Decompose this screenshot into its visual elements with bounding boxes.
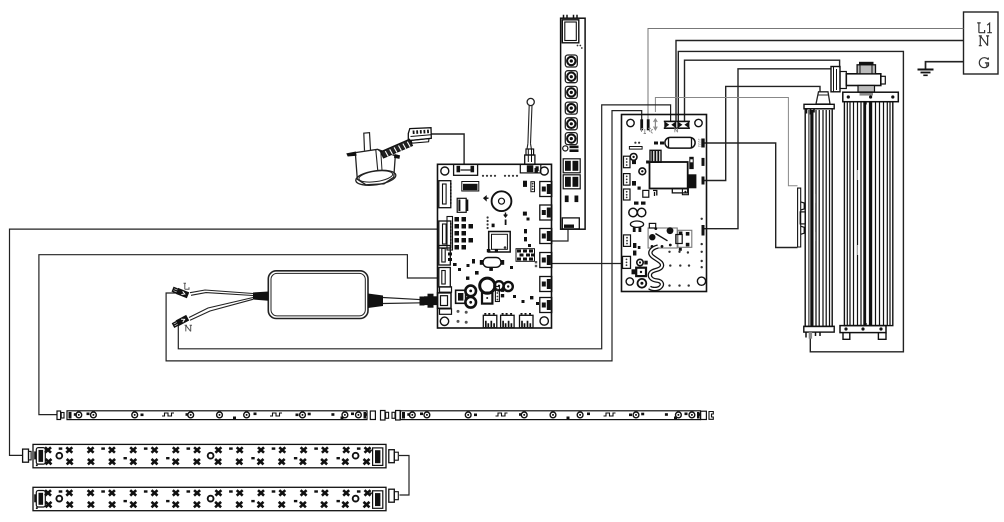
- bar1 right plug: [389, 450, 399, 463]
- cable connector: [408, 128, 431, 144]
- LED indicator: [563, 146, 579, 152]
- small parts right of buzzer: [523, 168, 538, 221]
- screw T1: [630, 154, 637, 161]
- cap C1 C2: [465, 286, 476, 297]
- cable left: [253, 292, 268, 301]
- dark square D1: [482, 293, 492, 304]
- right pin bar 1: [702, 158, 705, 166]
- pin TC: [654, 119, 658, 130]
- label L1: [642, 129, 647, 134]
- connector right 6: [540, 298, 552, 313]
- connector bottom 3: [520, 314, 534, 328]
- power supply PS1: [172, 271, 424, 332]
- wire PSU N to power board: [178, 105, 670, 349]
- connector left L4: [624, 235, 631, 247]
- right pin bar 3: [702, 225, 705, 236]
- pin header right: [531, 182, 535, 192]
- connector J1 top: [454, 164, 478, 175]
- connector right 4: [540, 253, 552, 268]
- screw T3: [637, 259, 648, 265]
- strip1 right plug: [370, 411, 388, 421]
- IC U5: [462, 182, 479, 192]
- wire LED bar link: [399, 456, 409, 496]
- connector left C: [439, 246, 451, 266]
- inductor wave: [650, 247, 663, 290]
- pad dots field: [634, 142, 703, 287]
- small parts left column: [632, 161, 649, 256]
- button board U2: [561, 15, 586, 229]
- button S5: [565, 118, 577, 130]
- button S4: [565, 102, 577, 114]
- fan FAN1: [831, 62, 898, 340]
- wire G: [926, 62, 964, 69]
- bottom pin: [809, 332, 812, 339]
- wire PSU L to power board: [166, 111, 642, 361]
- connector left L1: [624, 156, 631, 168]
- connector bottom 2: [501, 314, 514, 328]
- connector right 3: [540, 229, 552, 244]
- button S2: [565, 71, 577, 83]
- strip2 right plug: [701, 411, 714, 419]
- strip2 left plug: [392, 411, 400, 421]
- IC U6: [457, 198, 468, 212]
- resistor grid: [455, 217, 474, 250]
- transistor Q10: [676, 230, 692, 251]
- gray dots bottom-left: [457, 310, 468, 324]
- transistor Q11: [632, 268, 647, 276]
- relay RY1: [648, 223, 677, 248]
- bottom bracket: [840, 326, 886, 340]
- spade N: [172, 315, 189, 328]
- spade L: [172, 286, 189, 298]
- right pin bar 2: [702, 177, 705, 185]
- connector bottom: [562, 218, 579, 229]
- strip plug left: [57, 411, 64, 420]
- connector bottom 1: [483, 314, 497, 328]
- heater H1: [798, 92, 835, 339]
- wire main PCB to LED bar 1: [10, 229, 438, 455]
- dot column: [487, 216, 489, 229]
- cap C3 big: [480, 278, 495, 293]
- LED strip 1: [67, 411, 368, 420]
- body: [355, 149, 395, 185]
- connector left D: [439, 268, 451, 288]
- MCU U7: [489, 232, 511, 253]
- wire button board: [552, 230, 569, 242]
- cap square C6: [456, 290, 466, 303]
- thermostat: [816, 92, 830, 104]
- left tab: [347, 152, 357, 156]
- caps pair: [629, 208, 646, 216]
- wire L1: [648, 29, 964, 121]
- polarity arrows: [484, 197, 489, 201]
- fuse F1: [665, 137, 695, 148]
- wire N: [676, 41, 964, 123]
- bar1 left plug: [23, 449, 32, 462]
- DC plug: [420, 297, 425, 306]
- bottom cup: [355, 168, 397, 187]
- connector left B: [439, 221, 451, 248]
- wire main PCB to LED strip: [39, 255, 438, 415]
- terminal block TB1: [964, 12, 999, 74]
- pin header bottom: [495, 287, 504, 302]
- ground: [918, 70, 934, 76]
- IC U9: [563, 175, 580, 189]
- motor M1: [347, 128, 431, 188]
- pads: [565, 196, 569, 203]
- main PCB U1: [424, 164, 552, 328]
- cap C10: [689, 157, 693, 169]
- fan motor: [831, 62, 885, 96]
- DC jack J2: [424, 287, 452, 315]
- connector left A: [439, 181, 451, 208]
- pin L1b: [647, 119, 650, 130]
- ribbon cable: [381, 139, 413, 158]
- wire motor connector: [431, 134, 464, 165]
- IC small: [643, 190, 657, 197]
- label N: [185, 325, 192, 331]
- label L: [184, 283, 190, 289]
- wire heater TC: [655, 98, 797, 186]
- cable right: [368, 294, 383, 309]
- silkscreen bar: [629, 147, 642, 150]
- power board U3: [622, 115, 707, 292]
- wire fan motor speed: [704, 69, 831, 229]
- button S6: [565, 133, 577, 145]
- right tab: [394, 155, 400, 159]
- button S3: [565, 86, 577, 98]
- connector SPEED: [699, 139, 705, 148]
- bar2 right plug: [389, 489, 399, 502]
- shaft: [364, 133, 371, 151]
- top bracket: [804, 104, 834, 109]
- cage: [844, 102, 892, 326]
- wire fan motor N: [685, 60, 840, 122]
- mounting holes: [627, 119, 634, 126]
- LED bar 1: [33, 444, 386, 467]
- screw T2: [639, 168, 646, 175]
- bottom bracket: [804, 326, 834, 332]
- button S1: [565, 55, 577, 67]
- cap C4 C5: [494, 281, 503, 290]
- connector left L3: [624, 189, 631, 200]
- LED bar 2: [33, 487, 386, 510]
- pad matrix: [517, 250, 534, 261]
- LED strip 2: [401, 411, 702, 420]
- connector left L2: [624, 174, 631, 186]
- crystal Y1: [480, 249, 504, 271]
- top bracket: [843, 92, 899, 102]
- fasten terminal N2: [677, 121, 690, 129]
- wire heater bottom loop: [678, 51, 903, 351]
- misc small parts: [448, 229, 539, 305]
- wire heater top: [704, 143, 798, 248]
- connector right 2: [540, 205, 552, 220]
- pin L1: [640, 119, 643, 130]
- wire thermostat: [704, 86, 820, 180]
- fasten terminal N1: [664, 121, 677, 129]
- connector right 5: [540, 277, 552, 292]
- connector left L5: [623, 256, 631, 268]
- IC U8: [563, 159, 580, 173]
- connector top: [562, 15, 579, 43]
- terminal bracket: [798, 188, 806, 247]
- connector right 1: [540, 182, 552, 197]
- wire main PCB to power board: [552, 263, 623, 265]
- transformer TR1: [650, 150, 697, 194]
- pin dots top: [482, 175, 518, 177]
- mounting holes: [441, 167, 449, 175]
- diode oval: [630, 221, 643, 232]
- antenna ANT1: [525, 98, 535, 164]
- label TC: [648, 128, 653, 133]
- buzzer BZ1: [492, 191, 512, 211]
- body: [805, 109, 832, 327]
- label N: [675, 128, 678, 132]
